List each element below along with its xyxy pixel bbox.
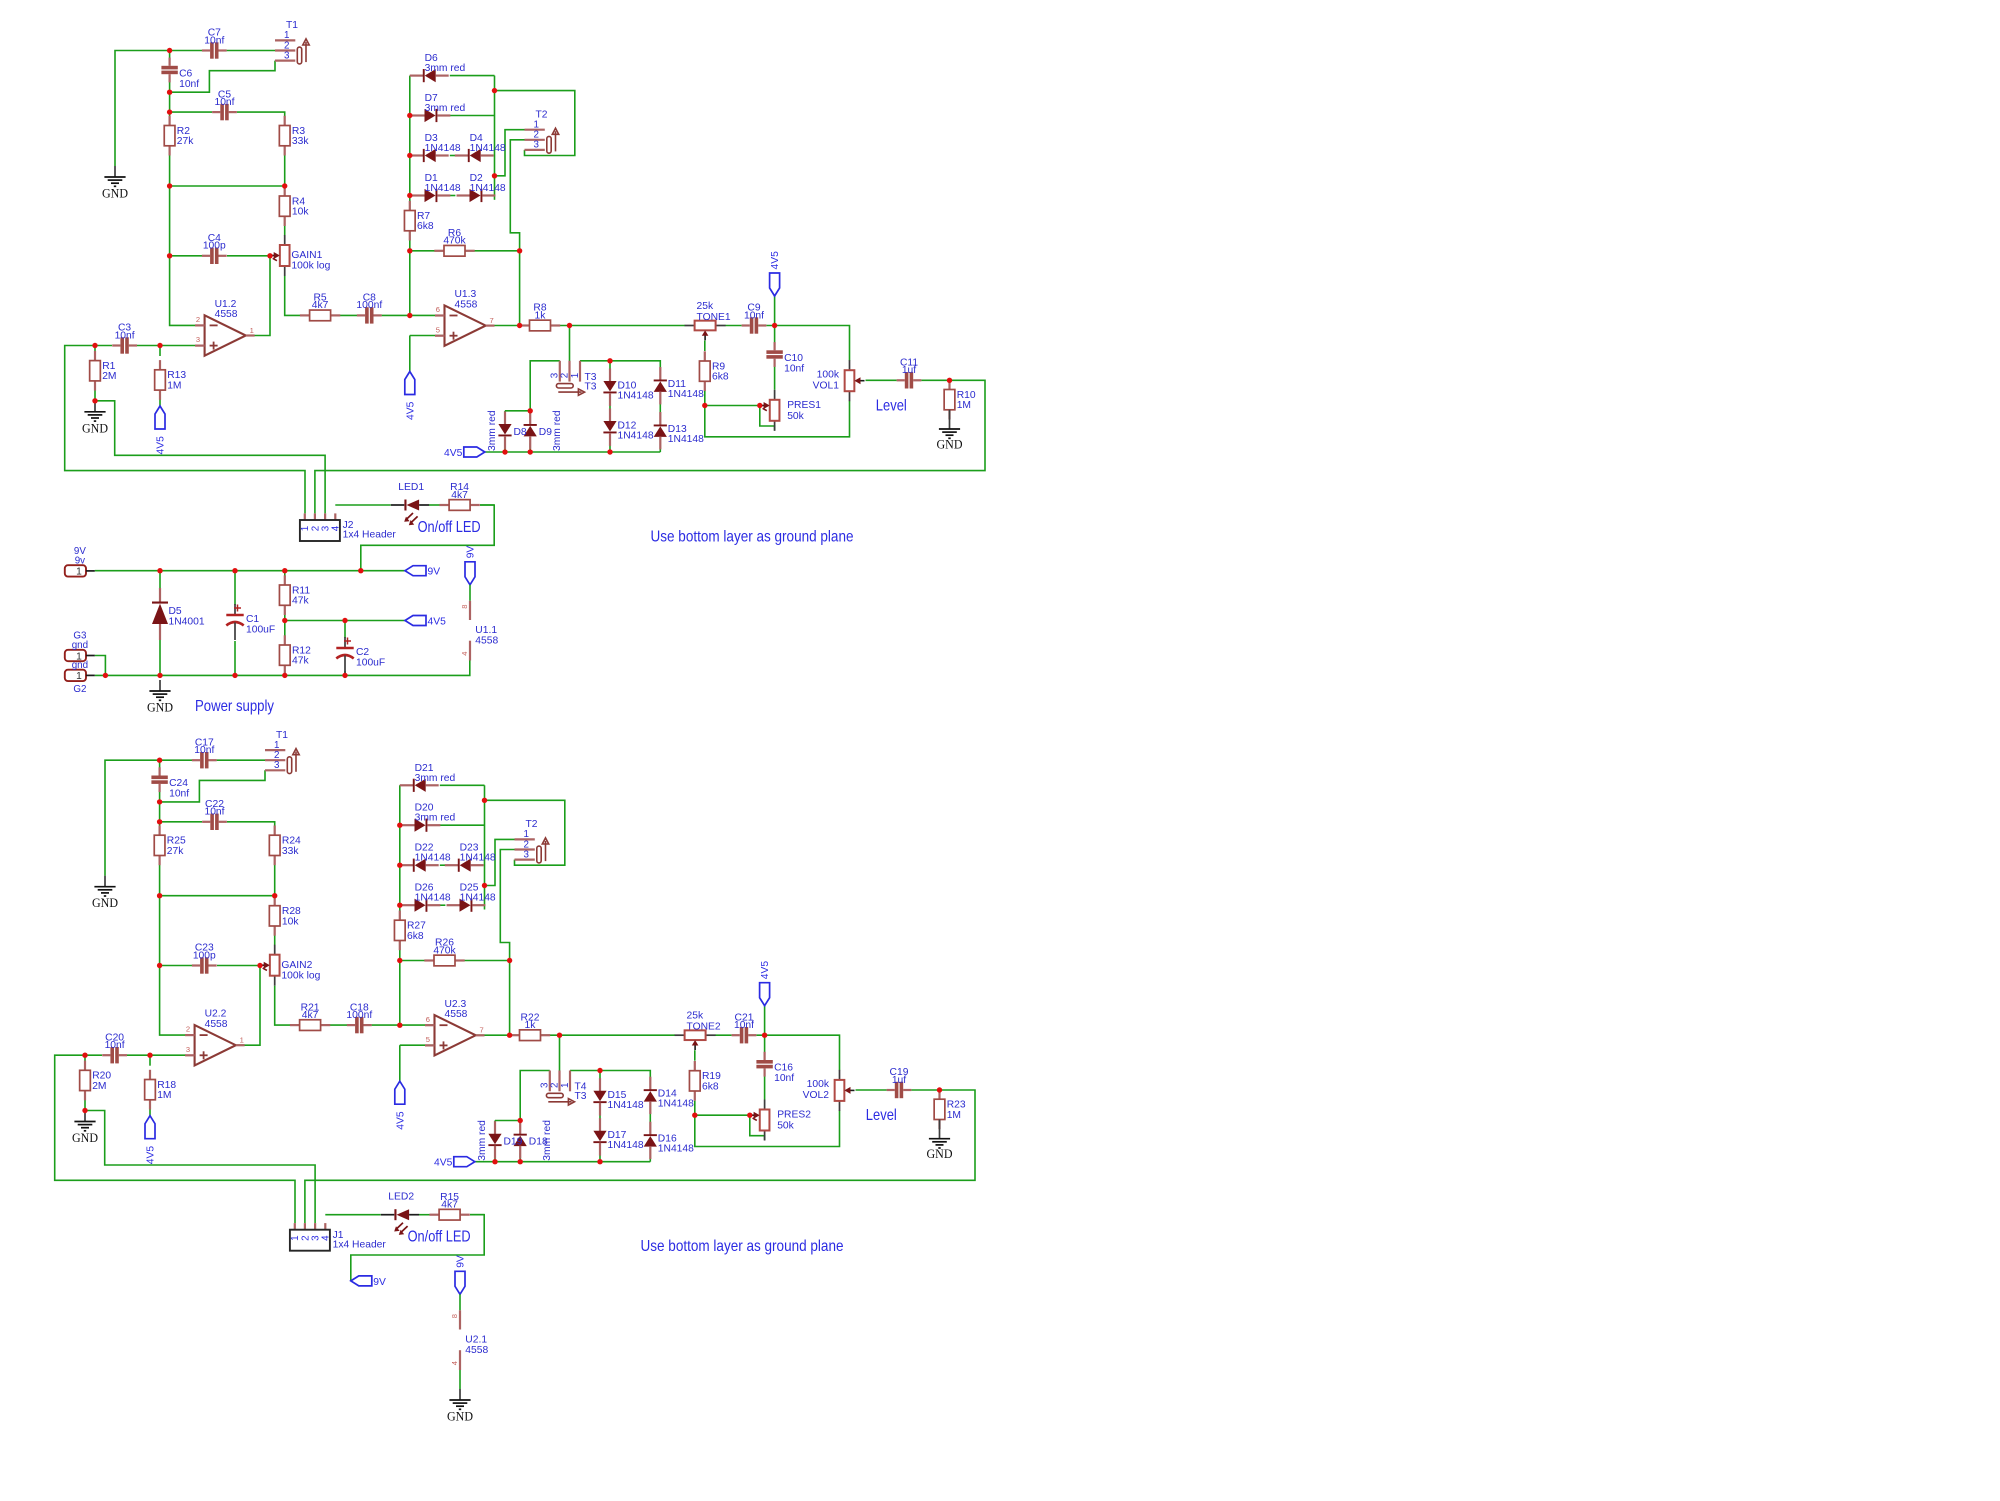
junction bbox=[947, 378, 952, 383]
junction bbox=[282, 183, 287, 188]
wire bbox=[170, 50, 202, 52]
ground bbox=[102, 166, 128, 201]
wire bbox=[409, 76, 411, 211]
junction bbox=[167, 90, 172, 95]
svg-text:2M: 2M bbox=[92, 1081, 106, 1092]
svg-text:T1: T1 bbox=[286, 20, 298, 31]
svg-text:10nf: 10nf bbox=[734, 1020, 754, 1031]
op-amp U2.3 bbox=[425, 999, 485, 1056]
junction bbox=[528, 449, 533, 454]
wire bbox=[84, 1055, 86, 1062]
wire bbox=[137, 345, 160, 347]
LED diode D20 bbox=[402, 803, 456, 832]
jack T1 bbox=[265, 730, 299, 774]
wire ground rail bbox=[95, 661, 470, 676]
svg-text:1: 1 bbox=[570, 373, 581, 378]
junction bbox=[528, 408, 533, 413]
supply flag 4V5 bbox=[405, 616, 446, 628]
svg-text:6k8: 6k8 bbox=[417, 221, 434, 232]
svg-text:7: 7 bbox=[480, 1026, 484, 1035]
svg-text:VOL2: VOL2 bbox=[803, 1090, 830, 1101]
wire bbox=[325, 1214, 380, 1216]
wire bbox=[450, 115, 495, 117]
svg-text:4558: 4558 bbox=[475, 635, 498, 646]
junction bbox=[407, 248, 412, 253]
capacitor C1 bbox=[226, 604, 275, 640]
svg-text:100nf: 100nf bbox=[356, 300, 382, 311]
svg-text:2: 2 bbox=[549, 1083, 560, 1088]
wire C3 to header pin1 bbox=[65, 346, 305, 514]
svg-text:100uF: 100uF bbox=[246, 625, 275, 636]
wire bbox=[285, 276, 310, 315]
wire bbox=[274, 926, 276, 945]
diode D15 bbox=[593, 1078, 643, 1115]
junction bbox=[407, 113, 412, 118]
supply flag 9V bbox=[351, 1276, 386, 1288]
svg-text:100p: 100p bbox=[193, 950, 216, 961]
wire bbox=[399, 1045, 401, 1081]
svg-text:G3: G3 bbox=[73, 631, 87, 642]
ground bbox=[937, 410, 963, 452]
junction bbox=[507, 1033, 512, 1038]
wire bbox=[227, 822, 275, 836]
svg-text:G2: G2 bbox=[73, 684, 86, 695]
diode D17 bbox=[593, 1118, 643, 1155]
svg-text:1N4148: 1N4148 bbox=[425, 143, 461, 154]
wire bbox=[529, 443, 531, 452]
junction bbox=[482, 883, 487, 888]
wire bbox=[399, 961, 401, 1026]
resistor R22 bbox=[510, 1012, 550, 1040]
svg-text:D8: D8 bbox=[514, 427, 527, 438]
wire bbox=[704, 391, 706, 406]
svg-text:T1: T1 bbox=[276, 730, 288, 741]
ground bbox=[82, 401, 108, 436]
svg-text:5: 5 bbox=[426, 1035, 430, 1044]
LED diode D18 bbox=[514, 1121, 527, 1158]
wire bbox=[450, 155, 456, 157]
resistor R21 bbox=[290, 1002, 330, 1030]
supply flag 4V5 bbox=[145, 1116, 157, 1165]
capacitor C6 bbox=[161, 58, 199, 90]
junction bbox=[397, 1022, 402, 1027]
junction bbox=[167, 109, 172, 114]
wire bbox=[170, 111, 212, 113]
resistor R25 bbox=[154, 826, 186, 866]
wire bbox=[559, 1035, 561, 1071]
svg-text:C6: C6 bbox=[179, 69, 192, 80]
svg-text:1N4148: 1N4148 bbox=[658, 1099, 694, 1110]
resistor R7 bbox=[404, 201, 433, 241]
junction bbox=[397, 958, 402, 963]
potentiometer VOL2 bbox=[803, 1070, 855, 1111]
wire R2 bottom to U pin2 bbox=[170, 146, 196, 326]
junction bbox=[517, 248, 522, 253]
svg-text:1M: 1M bbox=[167, 380, 181, 391]
wire level pot bottom loop bbox=[705, 401, 850, 437]
svg-text:9V: 9V bbox=[466, 546, 477, 559]
wire bbox=[159, 760, 161, 768]
diode D23 bbox=[445, 843, 496, 872]
svg-text:Use bottom layer as ground pla: Use bottom layer as ground plane bbox=[651, 529, 854, 546]
jack T4 bbox=[540, 1071, 587, 1106]
LED diode D6 bbox=[410, 53, 466, 82]
svg-text:C2: C2 bbox=[356, 647, 369, 658]
svg-text:100k: 100k bbox=[807, 1079, 830, 1090]
wire bbox=[160, 759, 192, 761]
LED diode D9 bbox=[524, 412, 537, 449]
svg-text:GND: GND bbox=[147, 700, 173, 715]
junction bbox=[167, 48, 172, 53]
wire bbox=[659, 437, 661, 452]
wire bbox=[400, 1044, 435, 1046]
capacitor C21 bbox=[732, 1012, 757, 1043]
junction bbox=[597, 1068, 602, 1073]
svg-text:4: 4 bbox=[331, 525, 342, 531]
diode D13 bbox=[654, 412, 704, 449]
wire bbox=[274, 856, 276, 906]
svg-text:Level: Level bbox=[866, 1107, 897, 1124]
svg-text:3mm red: 3mm red bbox=[425, 63, 466, 74]
wire bbox=[320, 1024, 347, 1026]
wire bbox=[921, 379, 949, 381]
ground bbox=[927, 1120, 953, 1162]
supply flag 4V5 bbox=[444, 447, 485, 459]
svg-text:PRES2: PRES2 bbox=[777, 1110, 811, 1121]
wire T1 pin3 to C6 bbox=[170, 61, 275, 93]
svg-text:3: 3 bbox=[284, 50, 290, 61]
wire bbox=[284, 612, 286, 621]
svg-text:GND: GND bbox=[92, 895, 118, 910]
resistor R4 bbox=[279, 186, 309, 226]
supply flag 4V5 bbox=[405, 372, 417, 421]
potentiometer TONE1 bbox=[685, 301, 731, 340]
wire bbox=[757, 1035, 840, 1070]
svg-text:25k: 25k bbox=[687, 1011, 704, 1022]
potentiometer TONE2 bbox=[675, 1011, 721, 1050]
wire gnd port G3 bbox=[95, 656, 106, 676]
junction bbox=[518, 1118, 523, 1123]
wire T3 pin3 to clip diodes bbox=[505, 361, 560, 411]
wire bbox=[227, 255, 270, 257]
potentiometer VOL1 bbox=[813, 360, 865, 401]
svg-text:10nf: 10nf bbox=[204, 807, 224, 818]
wire bbox=[485, 451, 661, 453]
op-amp U1.2 bbox=[195, 299, 255, 356]
wire bbox=[127, 1054, 150, 1056]
wire bbox=[939, 1090, 941, 1099]
resistor R9 bbox=[699, 351, 728, 391]
wire bbox=[599, 1103, 601, 1131]
junction bbox=[507, 958, 512, 963]
svg-text:C10: C10 bbox=[784, 353, 803, 364]
junction bbox=[157, 893, 162, 898]
junction bbox=[517, 323, 522, 328]
diode D14 bbox=[644, 1077, 694, 1114]
wire bbox=[160, 821, 202, 823]
svg-text:3: 3 bbox=[534, 140, 540, 151]
LED diode D8 bbox=[498, 412, 511, 449]
svg-text:4: 4 bbox=[460, 652, 469, 656]
wire LED loop to 9V rail bbox=[361, 505, 494, 571]
svg-text:GAIN2: GAIN2 bbox=[281, 960, 312, 971]
junction bbox=[157, 819, 162, 824]
wire bbox=[480, 504, 494, 506]
potentiometer GAIN2 bbox=[260, 945, 321, 986]
wire T2 pin1 bbox=[495, 130, 525, 176]
resistor R11 bbox=[279, 575, 310, 615]
svg-text:1N4148: 1N4148 bbox=[415, 853, 451, 864]
svg-text:3mm red: 3mm red bbox=[415, 813, 456, 824]
LED LED1 bbox=[391, 482, 429, 525]
svg-text:1uf: 1uf bbox=[892, 1075, 906, 1086]
svg-text:1M: 1M bbox=[947, 1110, 961, 1121]
wire bbox=[115, 51, 170, 167]
junction bbox=[232, 673, 237, 678]
junction bbox=[103, 673, 108, 678]
junction bbox=[492, 1159, 497, 1164]
capacitor C20 bbox=[102, 1032, 127, 1063]
svg-text:3mm red: 3mm red bbox=[487, 410, 498, 451]
svg-text:4558: 4558 bbox=[215, 309, 238, 320]
svg-text:100nf: 100nf bbox=[346, 1010, 372, 1021]
svg-text:GND: GND bbox=[102, 186, 128, 201]
wire bbox=[695, 1114, 750, 1116]
svg-text:PRES1: PRES1 bbox=[787, 400, 821, 411]
potentiometer PRES2 bbox=[750, 1100, 812, 1141]
junction bbox=[397, 823, 402, 828]
svg-text:1k: 1k bbox=[535, 310, 547, 321]
ground bbox=[147, 680, 173, 715]
resistor R28 bbox=[269, 896, 301, 936]
junction bbox=[492, 88, 497, 93]
svg-text:2: 2 bbox=[196, 315, 200, 324]
capacitor C22 bbox=[202, 799, 227, 830]
supply flag 4V5 bbox=[395, 1081, 407, 1130]
wire bbox=[659, 392, 661, 425]
wire bbox=[764, 1006, 766, 1035]
svg-text:10nf: 10nf bbox=[105, 1040, 125, 1051]
svg-text:33k: 33k bbox=[282, 846, 299, 857]
wire bbox=[540, 1034, 675, 1036]
svg-text:3mm red: 3mm red bbox=[425, 103, 466, 114]
junction bbox=[557, 1033, 562, 1038]
supply flag 4V5 bbox=[770, 251, 782, 296]
resistor R23 bbox=[934, 1090, 966, 1130]
svg-text:1N4148: 1N4148 bbox=[618, 431, 654, 442]
svg-text:10nf: 10nf bbox=[214, 97, 234, 108]
junction bbox=[282, 673, 287, 678]
svg-text:4558: 4558 bbox=[455, 299, 478, 310]
LED LED2 bbox=[381, 1192, 419, 1235]
svg-text:3mm red: 3mm red bbox=[477, 1120, 488, 1161]
svg-text:9V: 9V bbox=[373, 1277, 386, 1288]
svg-text:gnd: gnd bbox=[72, 660, 88, 671]
wire bbox=[911, 1089, 939, 1091]
diode D5 bbox=[152, 588, 168, 640]
supply flag 9V bbox=[465, 546, 477, 585]
wire bbox=[475, 1161, 651, 1163]
op-amp power U1.1 bbox=[460, 585, 499, 661]
svg-text:T3: T3 bbox=[585, 381, 597, 392]
wire LED loop to 9V flag bbox=[351, 1215, 484, 1281]
wire bbox=[764, 1035, 766, 1053]
wire bbox=[149, 1100, 151, 1116]
potentiometer GAIN1 bbox=[270, 235, 331, 276]
wire bbox=[450, 75, 495, 77]
wire bbox=[227, 50, 275, 52]
svg-text:10k: 10k bbox=[282, 916, 299, 927]
wire bbox=[94, 390, 96, 401]
diode D10 bbox=[603, 369, 653, 406]
wire pot wiper to opamp out bbox=[246, 256, 270, 336]
svg-text:1: 1 bbox=[560, 1083, 571, 1088]
wire T2 pin1 bbox=[485, 839, 515, 885]
svg-text:LED2: LED2 bbox=[388, 1192, 414, 1203]
wire bbox=[429, 504, 440, 506]
junction bbox=[257, 963, 262, 968]
wire bbox=[704, 341, 706, 352]
LED diode D7 bbox=[412, 93, 466, 122]
wire bbox=[440, 904, 446, 906]
resistor R18 bbox=[145, 1070, 177, 1110]
resistor R14 bbox=[439, 482, 479, 510]
svg-text:T2: T2 bbox=[526, 819, 538, 830]
svg-text:470k: 470k bbox=[433, 945, 456, 956]
svg-text:50k: 50k bbox=[787, 411, 804, 422]
diode D3 bbox=[410, 133, 461, 162]
wire T2 loop bbox=[485, 800, 565, 865]
junction bbox=[607, 449, 612, 454]
wire bbox=[85, 1054, 102, 1056]
resistor R3 bbox=[279, 116, 309, 156]
jack T1 bbox=[275, 20, 309, 64]
svg-text:10nf: 10nf bbox=[204, 35, 224, 46]
capacitor C7 bbox=[202, 28, 227, 59]
wire bbox=[284, 621, 286, 637]
wire T1 pin3 to C6 bbox=[160, 770, 265, 802]
capacitor C16 bbox=[756, 1052, 794, 1084]
wire bbox=[440, 784, 485, 786]
capacitor C5 bbox=[212, 89, 237, 120]
svg-text:U2.1: U2.1 bbox=[465, 1335, 487, 1346]
junction bbox=[82, 1053, 87, 1058]
resistor R6 bbox=[434, 228, 474, 256]
junction bbox=[282, 618, 287, 623]
svg-text:1N4148: 1N4148 bbox=[470, 143, 506, 154]
wire bbox=[169, 51, 171, 59]
svg-text:9v: 9v bbox=[75, 556, 85, 567]
svg-text:2: 2 bbox=[559, 373, 570, 378]
wire bbox=[504, 411, 506, 418]
wire bbox=[705, 405, 760, 407]
wire bbox=[284, 216, 286, 235]
svg-text:8: 8 bbox=[460, 605, 469, 609]
svg-text:D9: D9 bbox=[539, 427, 552, 438]
svg-text:4k7: 4k7 bbox=[451, 490, 468, 501]
header J1 bbox=[290, 1223, 387, 1251]
wire bbox=[694, 1101, 696, 1116]
svg-text:1: 1 bbox=[240, 1036, 244, 1045]
wire level pot bottom loop bbox=[695, 1110, 840, 1146]
wire bbox=[344, 671, 346, 675]
svg-text:4V5: 4V5 bbox=[428, 617, 447, 628]
svg-text:U1.1: U1.1 bbox=[475, 625, 497, 636]
wire bbox=[494, 1121, 496, 1128]
svg-text:2M: 2M bbox=[102, 371, 116, 382]
ground bbox=[92, 876, 118, 911]
svg-text:LED1: LED1 bbox=[398, 482, 424, 493]
wire gnd node to header pin3 bbox=[85, 1111, 315, 1224]
wire bbox=[95, 345, 112, 347]
wire bbox=[494, 1153, 496, 1162]
svg-text:9V: 9V bbox=[74, 546, 86, 557]
svg-text:6k8: 6k8 bbox=[702, 1081, 719, 1092]
diode D22 bbox=[400, 843, 451, 872]
svg-text:1N4148: 1N4148 bbox=[470, 183, 506, 194]
svg-text:1N4148: 1N4148 bbox=[460, 853, 496, 864]
junction bbox=[482, 798, 487, 803]
svg-text:1: 1 bbox=[76, 671, 82, 682]
svg-text:100k log: 100k log bbox=[281, 970, 320, 981]
svg-text:10nf: 10nf bbox=[744, 310, 764, 321]
wire PRES loop bbox=[750, 1115, 765, 1140]
diode D11 bbox=[654, 367, 704, 404]
svg-text:9V: 9V bbox=[456, 1255, 467, 1268]
wire bbox=[409, 231, 411, 251]
svg-text:50k: 50k bbox=[777, 1121, 794, 1132]
svg-text:100k: 100k bbox=[817, 370, 840, 381]
wire bbox=[84, 1099, 86, 1110]
wire bbox=[160, 965, 192, 967]
resistor R19 bbox=[689, 1061, 721, 1101]
junction bbox=[397, 863, 402, 868]
jack T2 bbox=[515, 819, 549, 863]
supply flag 9V bbox=[405, 566, 440, 578]
wire bbox=[160, 895, 275, 897]
supply flag 4V5 bbox=[155, 406, 167, 455]
wire bbox=[774, 326, 776, 344]
wire bbox=[344, 621, 346, 639]
wire bbox=[94, 346, 96, 353]
resistor R15 bbox=[429, 1192, 469, 1220]
svg-text:gnd: gnd bbox=[72, 640, 88, 651]
svg-text:4V5: 4V5 bbox=[770, 251, 781, 270]
svg-text:4V5: 4V5 bbox=[156, 436, 167, 455]
wire bbox=[159, 822, 161, 836]
wire bbox=[284, 671, 286, 675]
junction bbox=[692, 1113, 697, 1118]
svg-text:T2: T2 bbox=[536, 110, 548, 121]
svg-text:1: 1 bbox=[76, 567, 82, 578]
svg-text:4: 4 bbox=[321, 1235, 332, 1241]
wire bbox=[419, 1214, 430, 1216]
wire bbox=[149, 1055, 151, 1066]
wire bbox=[470, 1214, 484, 1216]
wire bbox=[494, 76, 496, 200]
svg-text:1: 1 bbox=[250, 326, 254, 335]
wire bbox=[410, 335, 445, 337]
wire bbox=[170, 255, 202, 257]
svg-text:1N4001: 1N4001 bbox=[169, 617, 205, 628]
wire bbox=[715, 1034, 731, 1036]
svg-text:3mm red: 3mm red bbox=[542, 1120, 553, 1161]
junction bbox=[762, 1033, 767, 1038]
svg-text:GND: GND bbox=[447, 1409, 473, 1424]
wire bbox=[440, 824, 485, 826]
wire bbox=[150, 1054, 186, 1056]
svg-text:VOL1: VOL1 bbox=[813, 381, 840, 392]
